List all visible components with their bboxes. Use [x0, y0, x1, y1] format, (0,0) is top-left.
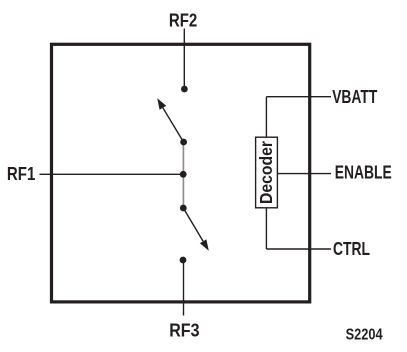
node pole dot	[180, 171, 187, 178]
wire decoder bottom	[265, 208, 267, 249]
node RF3 terminal dot	[180, 257, 187, 264]
svg-text:ENABLE: ENABLE	[335, 162, 392, 183]
node RF2 terminal dot	[181, 86, 188, 93]
wire RF3 stub	[183, 260, 185, 316]
device outline box	[52, 44, 310, 302]
decoder block U1	[256, 137, 278, 208]
svg-text:Decoder: Decoder	[256, 141, 276, 204]
wire RF2 stub	[183, 29, 185, 90]
wire decoder top	[265, 97, 267, 138]
svg-text:VBATT: VBATT	[332, 86, 378, 107]
wire CTRL	[266, 248, 331, 250]
wire pole common (grey)	[182, 142, 184, 208]
wire ENABLE	[277, 173, 331, 175]
wire RF1	[40, 173, 184, 175]
node throw 1 dot	[180, 139, 187, 146]
svg-text:CTRL: CTRL	[333, 238, 370, 259]
switch arm arrow to RF3	[183, 208, 209, 251]
svg-text:S2204: S2204	[346, 327, 383, 344]
svg-text:RF2: RF2	[169, 9, 197, 30]
wire VBATT	[266, 96, 331, 98]
switch arm arrow to RF2	[157, 98, 183, 142]
node throw 2 dot	[180, 205, 187, 212]
svg-text:RF1: RF1	[7, 163, 36, 184]
svg-text:RF3: RF3	[169, 319, 199, 340]
